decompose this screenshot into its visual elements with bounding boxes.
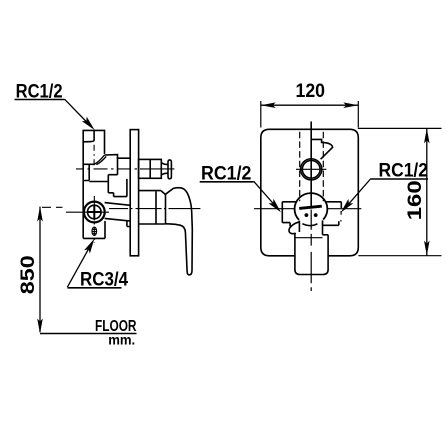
body inner notch [83, 164, 89, 180]
diverter circle inner [302, 160, 320, 178]
120 left arrow [261, 102, 276, 108]
top port bottom ledge [83, 163, 94, 165]
front vertical centerline upper solid [310, 122, 312, 208]
stop valve block [139, 159, 162, 178]
underline RC1/2 left front [200, 181, 254, 183]
inlet circle inner [88, 205, 102, 219]
160 extension lines [358, 128, 442, 255]
right lower bracket [323, 221, 339, 225]
underline RC1/2 right [371, 178, 428, 180]
RC1/2 left front leader [254, 181, 279, 209]
neck lines [299, 220, 322, 234]
850 bottom arrow [37, 319, 43, 334]
svg-text:850: 850 [18, 255, 39, 294]
drain plug hatch [92, 230, 96, 234]
850 top arrow [37, 207, 43, 222]
handle axis centerline [109, 208, 200, 210]
smile arc [302, 224, 317, 226]
left shoulder [282, 202, 296, 227]
RC1/2 left front arrowhead [269, 199, 282, 213]
body bottom edge [83, 237, 105, 239]
cartridge top edge [105, 155, 131, 159]
underline RC1/2 top-left [15, 99, 65, 101]
screw dots [305, 213, 309, 217]
lever tip hook front [289, 222, 300, 234]
diverter centerline [296, 168, 326, 170]
850 dimension line [39, 207, 41, 332]
front horizontal centerline [254, 208, 361, 210]
front vertical centerline lower dashed [310, 210, 312, 292]
lower supply pipe [295, 233, 328, 275]
RC3/4 arrowhead [84, 239, 94, 254]
handle dome and lever [165, 188, 192, 275]
160 bottom arrow [424, 241, 430, 256]
160 dimension line [426, 128, 428, 255]
diverter circle outer [301, 159, 322, 180]
stop valve centerline [76, 168, 174, 170]
front plate rounded square [261, 129, 359, 256]
diverter notch [311, 139, 332, 159]
circle centerline [66, 211, 109, 213]
floor line [40, 333, 137, 335]
lower right steps [105, 221, 130, 238]
stop valve division [149, 159, 151, 178]
120 dimension extension lines [261, 101, 359, 128]
svg-text:mm.: mm. [108, 333, 135, 348]
inlet circle outer ring [84, 202, 105, 223]
right shoulder hidden dashes [340, 211, 342, 222]
outlet pipe lines [105, 203, 130, 221]
right shoulder [327, 202, 342, 208]
stop valve end disc [168, 160, 171, 179]
vertical centerline through circle [93, 196, 95, 243]
RC3/4 drain plug ellipse [92, 227, 97, 235]
inlet circle cross [88, 205, 102, 219]
neck bottom edge [296, 237, 323, 239]
RC1/2 right leader [344, 179, 371, 210]
hidden body lines dashed [300, 132, 324, 202]
top port inner line with curl [83, 130, 94, 141]
top port vertical centerline [93, 145, 95, 167]
stop valve spool neck [161, 163, 168, 175]
RC1/2 top-left leader [65, 99, 92, 127]
body step ledge [89, 181, 108, 183]
neck step right [323, 234, 329, 236]
RC1/2 top-left arrowhead [82, 117, 95, 130]
RC3/4 leader [67, 245, 91, 288]
handle escutcheon flange [139, 191, 165, 224]
bonnet chamfer [161, 191, 166, 195]
RC1/2 right arrowhead [341, 199, 354, 213]
stepped bracket to plate [108, 158, 127, 196]
lever bar front [299, 206, 322, 208]
centerline extension to dim [42, 206, 63, 208]
handle dome front [295, 193, 328, 220]
top inlet port body [83, 130, 104, 154]
svg-text:160: 160 [405, 180, 426, 220]
valve body left edge [82, 141, 84, 238]
svg-text:120: 120 [296, 81, 326, 102]
120 dimension line [261, 104, 359, 106]
bonnet right edge [165, 194, 167, 224]
underline RC3/4 [67, 287, 121, 289]
120 right arrow [343, 102, 358, 108]
160 top arrow [424, 128, 430, 143]
fillet curves port to body [94, 155, 106, 165]
wall escutcheon plate side view [130, 130, 138, 256]
